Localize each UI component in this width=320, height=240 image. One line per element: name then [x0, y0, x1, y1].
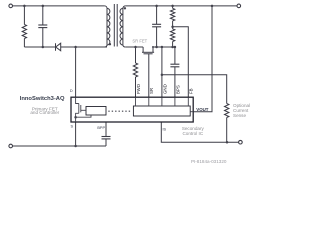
svg-text:VOUT: VOUT: [196, 107, 209, 112]
svg-text:Control IC: Control IC: [182, 131, 203, 136]
svg-text:InnoSwitch3-AQ: InnoSwitch3-AQ: [20, 96, 65, 102]
svg-text:GND: GND: [162, 84, 167, 94]
svg-text:Sense: Sense: [233, 113, 246, 118]
svg-text:and Controller: and Controller: [30, 110, 59, 115]
svg-text:S: S: [70, 124, 73, 128]
svg-text:IS: IS: [163, 128, 167, 132]
svg-text:BPP: BPP: [97, 126, 105, 130]
svg-text:D: D: [70, 89, 73, 93]
svg-text:FWD: FWD: [136, 84, 141, 94]
svg-text:SR FET: SR FET: [132, 38, 147, 43]
svg-text:FB: FB: [189, 88, 194, 94]
svg-text:PI-8184a-031320: PI-8184a-031320: [191, 159, 227, 164]
svg-text:BPS: BPS: [175, 85, 180, 94]
svg-text:SR: SR: [149, 88, 154, 94]
